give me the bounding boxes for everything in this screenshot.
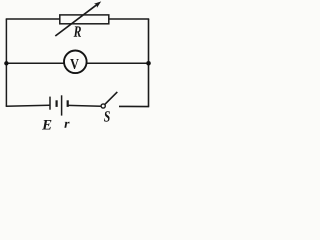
label r [64,122,69,128]
voltmeter V circle [64,51,87,74]
resistor R slider arrowhead [94,1,101,7]
switch S pivot circle [101,104,105,108]
label S [104,111,110,122]
wire left vertical [5,19,7,106]
label R [74,26,81,36]
wire bottom left segment [6,105,50,106]
wire bottom middle segment [68,104,101,107]
wire top left segment [6,18,61,20]
battery cell1 long plate [49,97,51,110]
wire middle right segment [87,62,149,64]
voltmeter V letter [70,59,79,69]
wire top right segment [108,18,149,20]
label E [42,120,51,129]
battery cell2 short plate [67,100,69,107]
node left junction [4,61,8,65]
resistor R body [60,15,109,24]
switch S lever [105,92,117,104]
wire middle left segment [6,62,64,64]
resistor R slider arrow shaft [55,4,98,36]
node right junction [146,61,151,66]
wire right vertical [148,19,150,107]
battery cell2 long plate [61,95,63,115]
wire bottom right segment [119,105,149,107]
battery cell1 short plate [55,100,57,107]
